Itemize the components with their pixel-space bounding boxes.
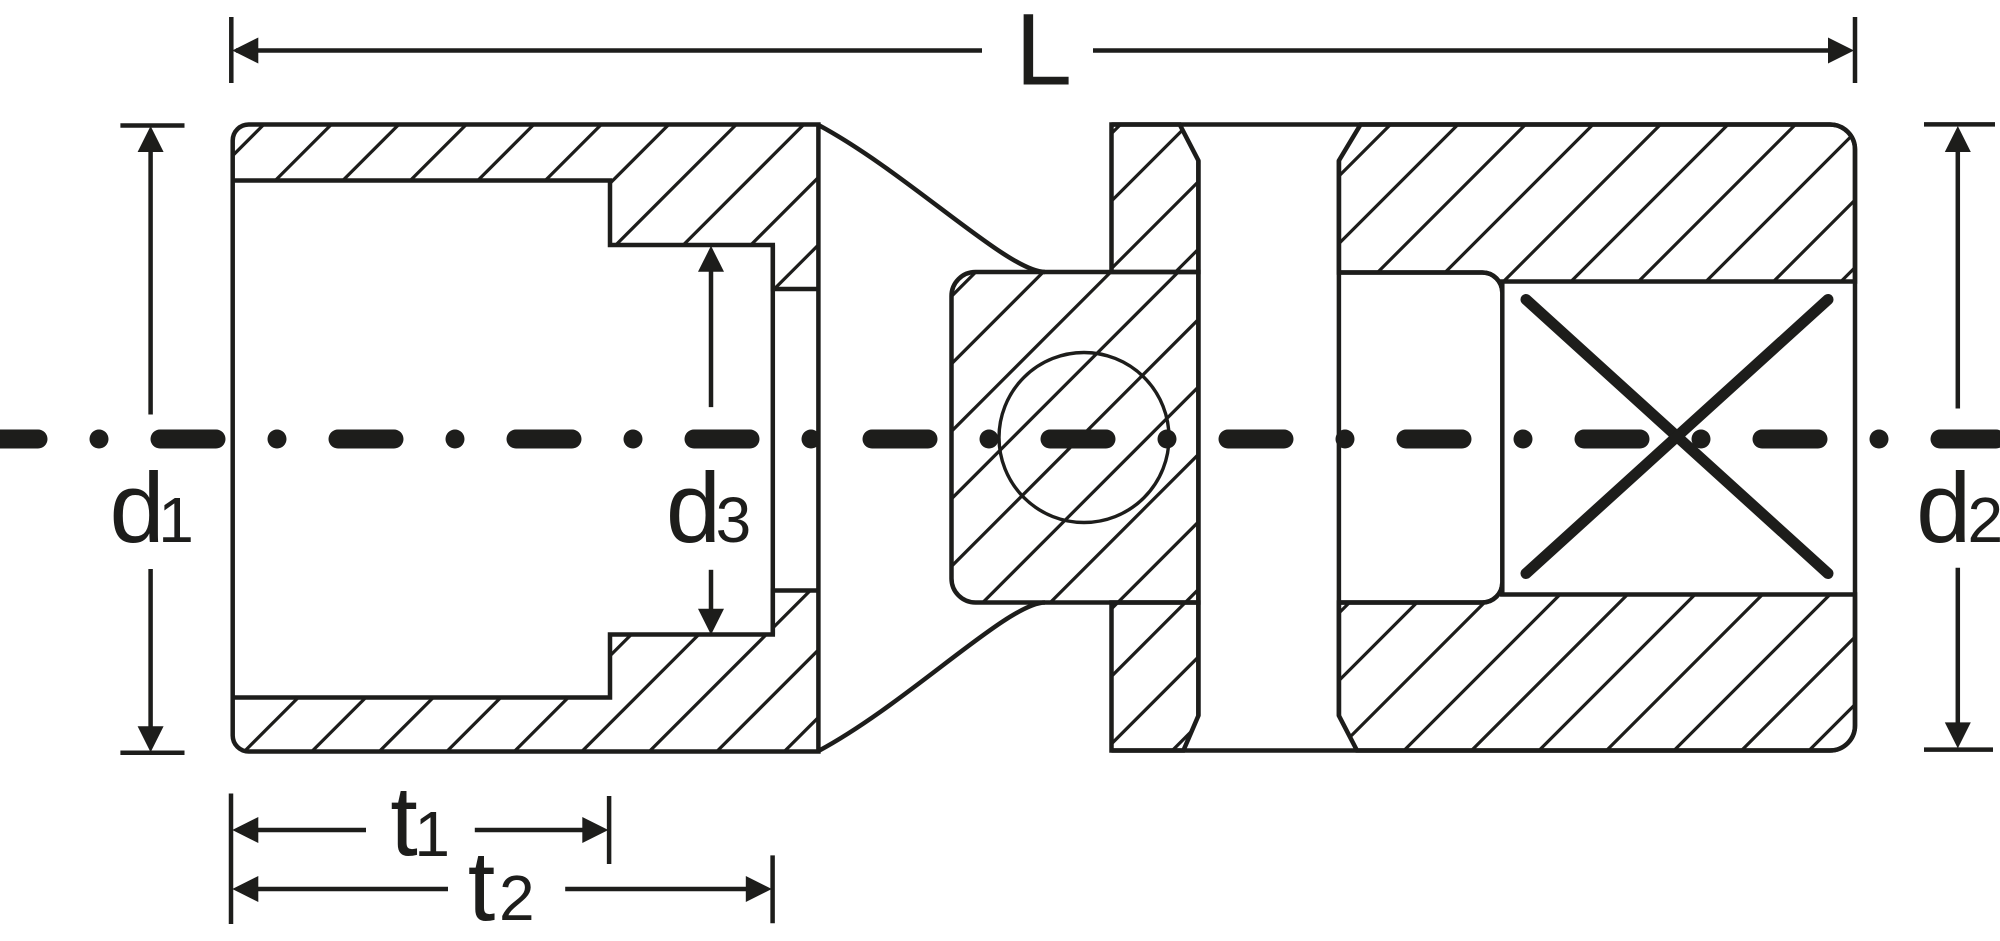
right yoke flange lower outline (1112, 603, 1199, 751)
left body: inner bore outline lower (233, 591, 819, 698)
t2 shaft left (237, 887, 448, 892)
arrow d3 down (698, 609, 724, 635)
centerline (dash-dot) (0, 430, 2000, 449)
hatching: left body lower section (0, 0, 1536, 941)
tick d2 top (1924, 122, 1995, 127)
dimension d1 (120, 126, 184, 753)
t1 shaft right (475, 828, 583, 833)
tick d2 bottom (1924, 747, 1993, 752)
left socket body silhouette (233, 125, 819, 752)
tick t2 right (770, 855, 775, 923)
arrow t2 right (746, 876, 772, 902)
X stroke BL-TR (1526, 300, 1828, 574)
svg-text:2: 2 (499, 862, 535, 934)
tick d1 top (120, 123, 184, 128)
right body main lower section outline (1339, 583, 1855, 751)
tick L right (1853, 17, 1858, 83)
svg-text:2: 2 (1968, 484, 2000, 556)
tick d1 bottom (120, 750, 184, 755)
right yoke flange upper outline (1112, 125, 1199, 273)
svg-text:L: L (1015, 0, 1072, 107)
arrow L right (1828, 38, 1854, 64)
arrow d2 up (1945, 126, 1971, 152)
neck curve bottom (818, 603, 1045, 752)
left body: inner bore outline upper (233, 181, 819, 290)
right body main upper section outline (1339, 125, 1855, 293)
svg-text:d: d (666, 452, 721, 563)
svg-text:3: 3 (716, 484, 752, 556)
d1 shaft bottom (148, 569, 153, 727)
dimension d3 (709, 270, 714, 611)
L line right segment (1093, 48, 1829, 53)
svg-text:1: 1 (414, 798, 450, 870)
inner cavity outline (right body) (1339, 273, 1502, 603)
tick t1 right (607, 796, 612, 864)
dimension L (231, 17, 1855, 83)
L line left segment (236, 48, 982, 53)
d2 shaft bottom (1956, 568, 1961, 723)
arrow t1 left (232, 817, 258, 843)
arrow t1 right (582, 817, 608, 843)
hatching: right body upper section (507, 0, 2000, 941)
arrow d2 down (1945, 722, 1971, 748)
svg-text:d: d (110, 452, 165, 563)
u-joint center block outline (952, 272, 1199, 603)
ball circle (999, 353, 1169, 523)
d2 shaft top (1956, 151, 1961, 409)
d1 shaft top (148, 151, 153, 415)
hatching: right yoke flange upper (304, 0, 1448, 941)
X cross in square drive hole (1526, 300, 1828, 574)
neck curve top (left body to joint block) (818, 125, 1045, 272)
right body silhouette (1112, 125, 1856, 751)
svg-text:t: t (468, 830, 496, 941)
svg-text:d: d (1916, 452, 1971, 563)
d3 shaft bottom (709, 570, 714, 611)
X stroke TL-BR (1526, 300, 1828, 574)
dimension t2 (237, 855, 773, 923)
hatching: left body upper section (0, 0, 1063, 941)
channel left wall (1196, 161, 1201, 716)
dimension d2 (1924, 124, 1995, 749)
hatching: u-joint block (307, 0, 1788, 941)
tick L left (229, 17, 234, 83)
t2 shaft right (565, 887, 746, 892)
arrow d1 up (138, 126, 164, 152)
arrow d1 down (138, 726, 164, 752)
channel right wall (1337, 161, 1342, 716)
arrow t2 left (232, 876, 258, 902)
d3 shaft top (709, 270, 714, 407)
hatching: right yoke flange lower (779, 0, 1923, 941)
dimension t1 (231, 794, 609, 925)
hatching: right body lower section (1011, 0, 2000, 941)
svg-text:1: 1 (158, 484, 194, 556)
t1 shaft left (237, 828, 366, 833)
arrow d3 up (698, 246, 724, 272)
tick t left (shared) (229, 794, 234, 925)
arrow L left (232, 38, 258, 64)
left body: bore end face (771, 245, 776, 635)
